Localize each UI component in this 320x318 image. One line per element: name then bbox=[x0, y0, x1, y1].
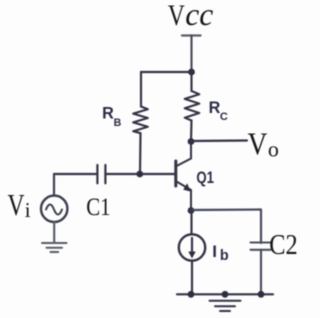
node: base node bbox=[136, 171, 143, 178]
transistor Q1 bbox=[176, 142, 191, 211]
svg-text:R: R bbox=[209, 99, 221, 117]
svg-text:I: I bbox=[212, 242, 217, 261]
svg-text:Q1: Q1 bbox=[196, 169, 214, 188]
svg-text:o: o bbox=[268, 136, 279, 161]
svg-text:cc: cc bbox=[185, 0, 213, 32]
ground: main bbox=[210, 301, 241, 311]
svg-text:V: V bbox=[8, 187, 25, 222]
wire: C1 to base bbox=[107, 173, 176, 175]
wire: output to Vo bbox=[191, 139, 247, 142]
wire: RB upper lead bbox=[140, 72, 142, 107]
wire: top junction left to RB branch bbox=[141, 71, 192, 73]
svg-text:C1: C1 bbox=[86, 193, 110, 221]
label RC bbox=[209, 99, 228, 123]
label Vi bbox=[8, 187, 31, 222]
resistor RC bbox=[185, 91, 200, 121]
wire: RC upper lead bbox=[190, 72, 192, 91]
ground: below Vi bbox=[42, 243, 67, 252]
label Vo bbox=[248, 127, 279, 161]
wire: source to C1 bbox=[54, 173, 96, 175]
current source Ib bbox=[179, 211, 205, 295]
svg-text:V: V bbox=[168, 0, 185, 32]
capacitor C2 bbox=[251, 243, 271, 295]
node: top junction bbox=[188, 69, 195, 76]
svg-text:b: b bbox=[220, 248, 229, 264]
supply terminal bar Vcc bbox=[182, 34, 201, 36]
svg-text:B: B bbox=[114, 117, 122, 129]
wire: RC lower lead to collector node bbox=[190, 121, 193, 142]
capacitor C1 bbox=[97, 165, 105, 183]
wire: Vcc terminal down to top junction bbox=[190, 36, 192, 73]
node: rail / current source bbox=[188, 291, 195, 298]
node: collector / output junction bbox=[188, 138, 195, 145]
svg-text:C: C bbox=[220, 111, 228, 123]
wire: RB lower lead to base node bbox=[139, 133, 142, 174]
svg-text:V: V bbox=[248, 127, 268, 161]
node: rail / ground tap bbox=[222, 291, 229, 298]
wire: emitter to C2 branch bbox=[191, 210, 261, 244]
source Vi bbox=[41, 174, 67, 243]
svg-text:C2: C2 bbox=[269, 229, 297, 260]
label RB bbox=[102, 104, 122, 128]
node: rail / C2 bbox=[258, 291, 265, 298]
svg-text:i: i bbox=[25, 198, 31, 222]
svg-text:R: R bbox=[102, 104, 114, 122]
label Ib bbox=[212, 242, 229, 264]
resistor RB bbox=[133, 107, 148, 134]
wire: bottom ground rail bbox=[177, 293, 273, 295]
node: emitter junction bbox=[188, 207, 195, 214]
label Vcc bbox=[168, 0, 213, 32]
